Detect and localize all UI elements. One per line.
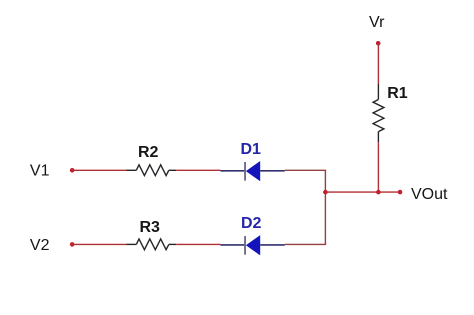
wire (285, 243, 326, 245)
svg-text:R2: R2 (138, 144, 159, 161)
wire (176, 169, 220, 171)
wire (324, 170, 326, 244)
wire (285, 169, 326, 171)
node Vr (369, 14, 385, 46)
node VOut (398, 186, 448, 203)
svg-text:D2: D2 (241, 215, 262, 232)
wire (176, 243, 220, 245)
diode D1 (221, 141, 285, 181)
wire (72, 169, 126, 171)
junction (376, 190, 381, 195)
junction (323, 190, 328, 195)
svg-text:R1: R1 (387, 85, 408, 102)
node V2 (30, 237, 75, 254)
resistor R3 (127, 219, 177, 250)
svg-text:D1: D1 (241, 141, 262, 158)
diode D2 (221, 215, 285, 255)
resistor R1 (373, 84, 408, 142)
node V1 (30, 163, 75, 180)
wire (325, 191, 400, 193)
wire (72, 243, 126, 245)
wire (377, 142, 379, 192)
svg-text:R3: R3 (140, 219, 161, 236)
svg-text:VOut: VOut (411, 186, 448, 203)
wire (377, 43, 379, 84)
svg-text:V2: V2 (30, 237, 50, 254)
svg-text:V1: V1 (30, 163, 50, 180)
svg-text:Vr: Vr (369, 14, 385, 31)
resistor R2 (127, 144, 177, 175)
